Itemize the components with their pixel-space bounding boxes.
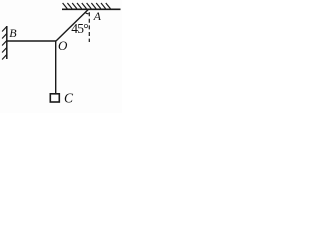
- ceiling hatch 7: [91, 3, 96, 9]
- wire rope OA (diagonal 45 deg): [56, 9, 89, 41]
- ceiling hatch 10: [106, 3, 111, 9]
- angle arc at A: [85, 12, 89, 14]
- wall hatch 4: [2, 48, 7, 53]
- ceiling hatch 1: [63, 3, 68, 9]
- svg-text:C: C: [64, 91, 74, 106]
- ceiling hatch 5: [82, 3, 87, 9]
- wall hatch 1: [2, 27, 7, 32]
- ceiling line: [62, 8, 121, 10]
- svg-text:A: A: [93, 9, 102, 23]
- wire rope OC (vertical to block): [55, 41, 57, 93]
- ceiling (top support): [62, 3, 121, 9]
- ceiling hatch 2: [67, 3, 72, 9]
- block C (hanging weight): [50, 94, 59, 102]
- ceiling hatch 4: [77, 3, 82, 9]
- ceiling hatch 3: [72, 3, 77, 9]
- ceiling hatch 9: [101, 3, 106, 9]
- ceiling hatch 6: [87, 3, 92, 9]
- svg-text:B: B: [9, 26, 17, 40]
- svg-text:O: O: [58, 38, 68, 53]
- wall (left support): [2, 26, 7, 60]
- wall hatch 2: [2, 34, 7, 39]
- wall line: [6, 26, 8, 59]
- svg-text:45°: 45°: [71, 21, 88, 36]
- ceiling hatch 8: [96, 3, 101, 9]
- dashed vertical reference line from A: [88, 12, 90, 42]
- wall hatch 3: [2, 41, 7, 46]
- wall hatch 5: [2, 55, 7, 60]
- wire rope BO (horizontal): [7, 40, 56, 42]
